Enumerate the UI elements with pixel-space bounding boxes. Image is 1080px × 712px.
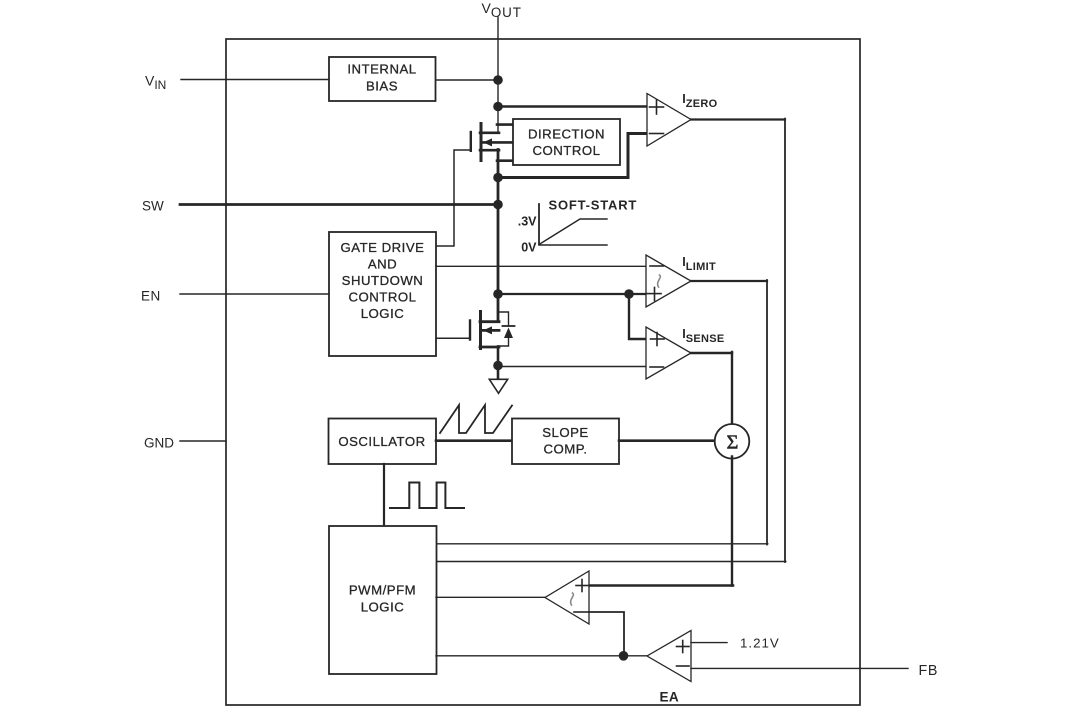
wire VIN bbox=[181, 79, 329, 81]
wire into PWM comparator + input bbox=[589, 584, 734, 587]
ground bbox=[489, 379, 507, 393]
svg-text:COMP.: COMP. bbox=[543, 442, 587, 457]
comparator PWM bbox=[545, 571, 589, 624]
op-amp EA bbox=[647, 631, 691, 682]
wire GND bbox=[180, 440, 226, 442]
wire gate drive to Q2 gate bbox=[436, 337, 470, 339]
wire ISENSE output horizontal bbox=[691, 352, 732, 354]
wire Q2 bulk stub bbox=[482, 329, 499, 332]
wire Q2 source stub bbox=[480, 346, 499, 349]
junction VOUT rail / IZERO + bbox=[493, 102, 503, 112]
svg-text:VIN: VIN bbox=[145, 72, 166, 92]
internal bias block bbox=[329, 57, 436, 101]
junction EA output node bbox=[619, 651, 629, 661]
wire ILIMIT feedback to PWM logic bbox=[436, 543, 768, 545]
junction Q2 source bbox=[493, 361, 503, 371]
svg-text:CONTROL: CONTROL bbox=[533, 143, 601, 158]
comparator IZERO bbox=[647, 94, 691, 147]
sawtooth waveform bbox=[440, 405, 512, 433]
wire direction control pin 3 bbox=[497, 159, 513, 162]
wire VOUT rail to IZERO + input bbox=[498, 105, 647, 108]
clock waveform bbox=[390, 483, 464, 509]
junction VOUT rail / IZERO - bbox=[493, 173, 503, 183]
svg-text:1.21V: 1.21V bbox=[740, 636, 780, 651]
svg-text:0V: 0V bbox=[521, 241, 537, 255]
gate drive block bbox=[329, 232, 436, 356]
wire to IZERO - input bbox=[498, 134, 647, 178]
comparator ILIMIT bbox=[646, 255, 691, 307]
svg-text:BIAS: BIAS bbox=[366, 78, 398, 93]
svg-text:SOFT-START: SOFT-START bbox=[549, 198, 638, 213]
wire IZERO output horizontal bbox=[691, 118, 785, 120]
wire oscillator to PWM logic bbox=[383, 464, 385, 526]
wire VOUT rail mid (thick) bbox=[497, 150, 500, 322]
svg-text:SW: SW bbox=[142, 199, 164, 214]
wire Q1 bulk to direction control pin 2 bbox=[482, 141, 513, 144]
wire Q1 gate to gate drive bbox=[436, 150, 471, 246]
junction SW node bbox=[493, 200, 503, 210]
wire ISENSE output down to summer bbox=[731, 352, 733, 424]
svg-text:EA: EA bbox=[660, 690, 679, 705]
svg-text:VOUT: VOUT bbox=[482, 0, 522, 20]
svg-text:IZERO: IZERO bbox=[682, 92, 717, 110]
wire slope comp to summer bbox=[619, 439, 716, 442]
PWM PFM logic block bbox=[329, 526, 437, 674]
transistor Q2 channel bar bbox=[479, 312, 482, 349]
direction control block bbox=[513, 119, 620, 165]
body diode D1 bbox=[498, 312, 509, 326]
port FB bbox=[691, 667, 908, 669]
wire branch to ISENSE + bbox=[629, 294, 646, 339]
wire VOUT lead bbox=[497, 17, 499, 80]
IC boundary box bbox=[226, 39, 860, 705]
svg-text:INTERNAL: INTERNAL bbox=[347, 62, 416, 77]
junction ILIMIT + / ISENSE + branch bbox=[624, 289, 634, 299]
wire IZERO output vertical run bbox=[784, 119, 786, 562]
junction VOUT rail / bias output bbox=[493, 75, 503, 85]
wire direction control pin 1 bbox=[497, 123, 513, 126]
wire oscillator to slope comp bbox=[436, 439, 512, 442]
svg-text:DIRECTION: DIRECTION bbox=[528, 126, 605, 141]
svg-text:LOGIC: LOGIC bbox=[361, 600, 405, 615]
wire Q2 drain stub bbox=[480, 320, 499, 323]
oscillator block bbox=[329, 419, 437, 465]
summer U sigma bbox=[715, 424, 750, 459]
Q1 bulk arrow bbox=[483, 138, 492, 146]
wire EN bbox=[180, 293, 329, 295]
svg-text:LOGIC: LOGIC bbox=[361, 306, 405, 321]
wire VOUT rail upper (thin) bbox=[497, 80, 499, 133]
svg-text:SHUTDOWN: SHUTDOWN bbox=[342, 273, 424, 288]
wire PWM comparator output to PWM logic bbox=[436, 596, 545, 598]
svg-text:EN: EN bbox=[141, 289, 161, 304]
value 1.21V bbox=[691, 642, 727, 644]
wire Q2 source to ISENSE - bbox=[498, 366, 646, 368]
wire Q1 drain stub bbox=[480, 132, 499, 135]
svg-text:Σ: Σ bbox=[727, 431, 739, 453]
wire EA output to PWM logic bbox=[436, 655, 647, 657]
wire ILIMIT output vertical run bbox=[766, 280, 768, 545]
svg-text:GND: GND bbox=[144, 436, 174, 451]
transistor Q2 NMOS gate bar bbox=[469, 321, 471, 340]
transistor Q1 gate bar bbox=[470, 132, 472, 151]
svg-text:.3V: .3V bbox=[518, 215, 537, 229]
junction Q2 drain bbox=[493, 289, 503, 299]
svg-text:OSCILLATOR: OSCILLATOR bbox=[338, 434, 425, 449]
wire summer output down bbox=[731, 457, 733, 586]
svg-text:GATE DRIVE: GATE DRIVE bbox=[341, 240, 425, 255]
svg-text:SLOPE: SLOPE bbox=[542, 425, 588, 440]
wire IZERO feedback to PWM logic bbox=[436, 561, 786, 563]
svg-text:ISENSE: ISENSE bbox=[682, 327, 724, 345]
wire gate drive to ILIMIT - input bbox=[436, 265, 646, 267]
comparator ISENSE bbox=[646, 327, 691, 379]
slope comp block bbox=[512, 419, 619, 465]
svg-text:ILIMIT: ILIMIT bbox=[682, 255, 716, 273]
svg-text:AND: AND bbox=[368, 256, 397, 271]
wire PWM comparator - input bbox=[589, 612, 624, 656]
svg-text:CONTROL: CONTROL bbox=[349, 289, 417, 304]
transistor Q1 PMOS channel bar bbox=[480, 124, 483, 161]
wire bias output to VOUT rail bbox=[436, 79, 498, 81]
svg-text:FB: FB bbox=[919, 663, 938, 679]
wire Q2 drain to ILIMIT + bbox=[498, 293, 646, 295]
wire SW bbox=[180, 203, 498, 206]
Q2 bulk arrow bbox=[483, 326, 492, 334]
wire Q1 source stub bbox=[480, 149, 499, 152]
svg-text:PWM/PFM: PWM/PFM bbox=[349, 583, 416, 598]
wire ILIMIT output horizontal bbox=[691, 280, 767, 282]
wire VOUT rail lower bbox=[497, 347, 500, 380]
